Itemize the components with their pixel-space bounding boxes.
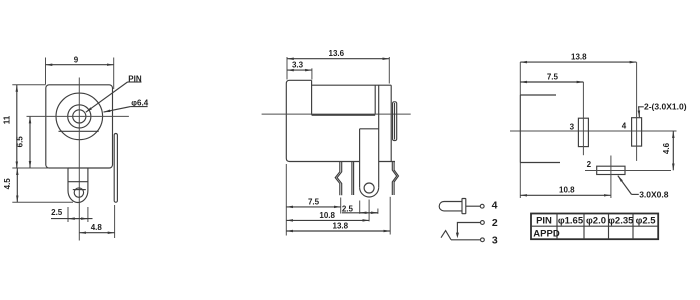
- dimension 13.8 line (layout): [520, 61, 636, 63]
- plug pin capsule: [439, 202, 462, 211]
- svg-text:3: 3: [570, 123, 575, 132]
- dimension 13.6 extension right: [388, 57, 390, 84]
- svg-text:11: 11: [3, 115, 12, 124]
- pad 4: [632, 118, 642, 146]
- partition / tab right edge: [378, 85, 380, 187]
- svg-text:PIN: PIN: [536, 215, 552, 226]
- svg-text:3.0X0.8: 3.0X0.8: [639, 189, 669, 199]
- pin 2 lead: [457, 223, 480, 234]
- bottom tab U arc: [68, 191, 88, 203]
- dimension 10.8 line: [286, 219, 369, 221]
- pin 2 contact arrow: [456, 233, 459, 239]
- tab crossbar line: [68, 181, 88, 183]
- pin 2 terminal circle: [481, 221, 485, 225]
- dimension 13.6 line: [287, 58, 389, 60]
- svg-text:7.5: 7.5: [308, 197, 320, 206]
- middle circle: [68, 105, 91, 128]
- tab hole (side view): [364, 183, 374, 193]
- pin 4 terminal circle: [480, 204, 484, 208]
- dimension 10.8 line (layout): [520, 194, 610, 196]
- svg-text:13.8: 13.8: [571, 53, 587, 62]
- svg-text:3: 3: [492, 235, 498, 247]
- svg-text:2.5: 2.5: [51, 208, 63, 217]
- svg-text:2: 2: [587, 160, 592, 169]
- tab left extension: [359, 201, 361, 214]
- dimension 11 line: [16, 85, 18, 168]
- svg-text:2.5: 2.5: [342, 204, 354, 213]
- svg-text:4.8: 4.8: [91, 223, 103, 232]
- left wavy leg: [335, 162, 340, 196]
- tab center extension: [368, 200, 370, 222]
- layout body left edge: [519, 95, 521, 163]
- table column dividers: [556, 214, 558, 240]
- svg-text:2-(3.0X1.0): 2-(3.0X1.0): [644, 101, 687, 111]
- side view step vertical: [311, 80, 313, 115]
- svg-text:7.5: 7.5: [547, 73, 559, 82]
- dimension 9 extension right: [113, 58, 115, 90]
- dimension 11 extension top: [12, 84, 46, 86]
- left extension (bottom dims): [285, 164, 287, 236]
- bottom tab right edge: [87, 168, 89, 191]
- side lug (side view): [393, 102, 397, 141]
- pin 3 terminal circle: [481, 238, 485, 242]
- dimension 3.3 extension right: [311, 68, 313, 79]
- dimension 2.5 extension left: [67, 207, 69, 222]
- pin 3 lead: [451, 239, 481, 241]
- svg-text:10.8: 10.8: [319, 211, 335, 220]
- pad 3: [578, 118, 588, 146]
- tab left edge: [359, 129, 361, 187]
- plug pin flange: [462, 199, 466, 214]
- svg-text:4.6: 4.6: [662, 142, 671, 154]
- inner circle (pin): [73, 110, 86, 123]
- layout body top stub: [520, 94, 556, 96]
- svg-text:4: 4: [492, 199, 498, 211]
- dimension 2.5 arrows (side view): [360, 212, 378, 214]
- layout left extension top: [519, 62, 521, 95]
- side lug (front view): [114, 134, 117, 203]
- dimension 13.8 line (side view): [286, 230, 390, 232]
- dimension 2.5 arrows: [68, 218, 88, 220]
- pad 3 centerline: [582, 82, 584, 155]
- bottom tab left edge: [67, 168, 69, 191]
- dimension 4.6 line: [672, 131, 674, 170]
- PIN leader: [86, 82, 128, 112]
- dimension 7.5 line: [286, 206, 340, 208]
- svg-text:φ1.65: φ1.65: [558, 215, 584, 226]
- left leg extension: [340, 198, 342, 214]
- pad 4 centerline: [636, 62, 638, 161]
- straight middle leg: [351, 162, 353, 196]
- layout left extension bottom: [519, 163, 521, 199]
- svg-text:φ2.35: φ2.35: [608, 215, 634, 226]
- leader 3.0X0.8 landing: [632, 193, 639, 195]
- leader 2-(3.0X1.0): [639, 107, 644, 118]
- tab hole top line: [73, 189, 86, 191]
- tab right extension: [377, 209, 379, 214]
- tab hole: [74, 188, 83, 197]
- side view top edge: [312, 84, 392, 86]
- table outer border: [531, 214, 658, 240]
- pad 2 vertical centerline: [610, 156, 612, 199]
- svg-text:4: 4: [622, 122, 627, 131]
- dimension 2.5 extension right: [87, 207, 89, 222]
- tab notch top line: [360, 128, 379, 130]
- svg-text:APPD: APPD: [533, 229, 560, 240]
- vertical centerline: [78, 78, 80, 241]
- dimension 4.5 extension bottom: [12, 201, 73, 203]
- dimension 4.5 line: [16, 168, 18, 202]
- dimension 2.5 tail: [51, 218, 93, 220]
- PIN leader landing: [128, 81, 142, 83]
- side lug inner line: [394, 103, 396, 140]
- side view centerline: [262, 113, 411, 115]
- svg-text:13.8: 13.8: [333, 222, 349, 231]
- dia 6.4 leader landing: [130, 106, 147, 108]
- svg-text:4.5: 4.5: [3, 178, 12, 190]
- side view right edge: [390, 85, 392, 161]
- pad 2 horizontal centerline: [585, 170, 671, 172]
- leader 3.0X0.8: [618, 176, 632, 195]
- svg-text:φ2.5: φ2.5: [636, 215, 657, 226]
- table row divider: [531, 225, 658, 227]
- svg-text:13.6: 13.6: [329, 49, 345, 58]
- dimension 2.5 tail (side view): [342, 212, 378, 214]
- dia 6.4 leader: [104, 107, 131, 113]
- dimension 7.5 line (layout): [520, 81, 583, 83]
- dimension 9 extension left: [45, 58, 47, 85]
- dimension 11 extension bottom: [12, 167, 68, 169]
- dimension 13.6 extension left: [286, 57, 288, 80]
- dimension 4.8 extension right: [114, 205, 116, 238]
- svg-text:10.8: 10.8: [559, 186, 575, 195]
- outer circle (barrel): [56, 93, 103, 140]
- pin 4 lead: [466, 205, 480, 207]
- svg-text:9: 9: [74, 55, 79, 64]
- svg-text:3.3: 3.3: [292, 61, 304, 70]
- right leg extension: [389, 197, 391, 235]
- tab U arc (side view): [360, 187, 379, 197]
- pad 2: [597, 166, 625, 174]
- layout body bottom stub: [520, 162, 560, 164]
- svg-text:6.5: 6.5: [16, 136, 25, 148]
- dimension 3.3 line: [287, 69, 312, 71]
- inner box bottom thick line: [312, 114, 376, 116]
- svg-text:2: 2: [492, 217, 498, 229]
- right wavy leg: [392, 162, 396, 196]
- layout centerline horizontal: [510, 130, 677, 132]
- side view bottom edge right: [379, 161, 395, 163]
- front view body square: [46, 85, 113, 168]
- inner box right edge: [374, 85, 376, 114]
- svg-text:φ2.0: φ2.0: [586, 215, 606, 226]
- horizontal centerline: [27, 115, 129, 117]
- pin 3 spring contact: [441, 231, 451, 240]
- dimension 6.5 line: [29, 117, 31, 168]
- dimension 9 line: [46, 64, 114, 66]
- chord line in barrel: [59, 130, 99, 132]
- dimension 4.8 line: [79, 232, 114, 234]
- side view outline left: [286, 80, 359, 161]
